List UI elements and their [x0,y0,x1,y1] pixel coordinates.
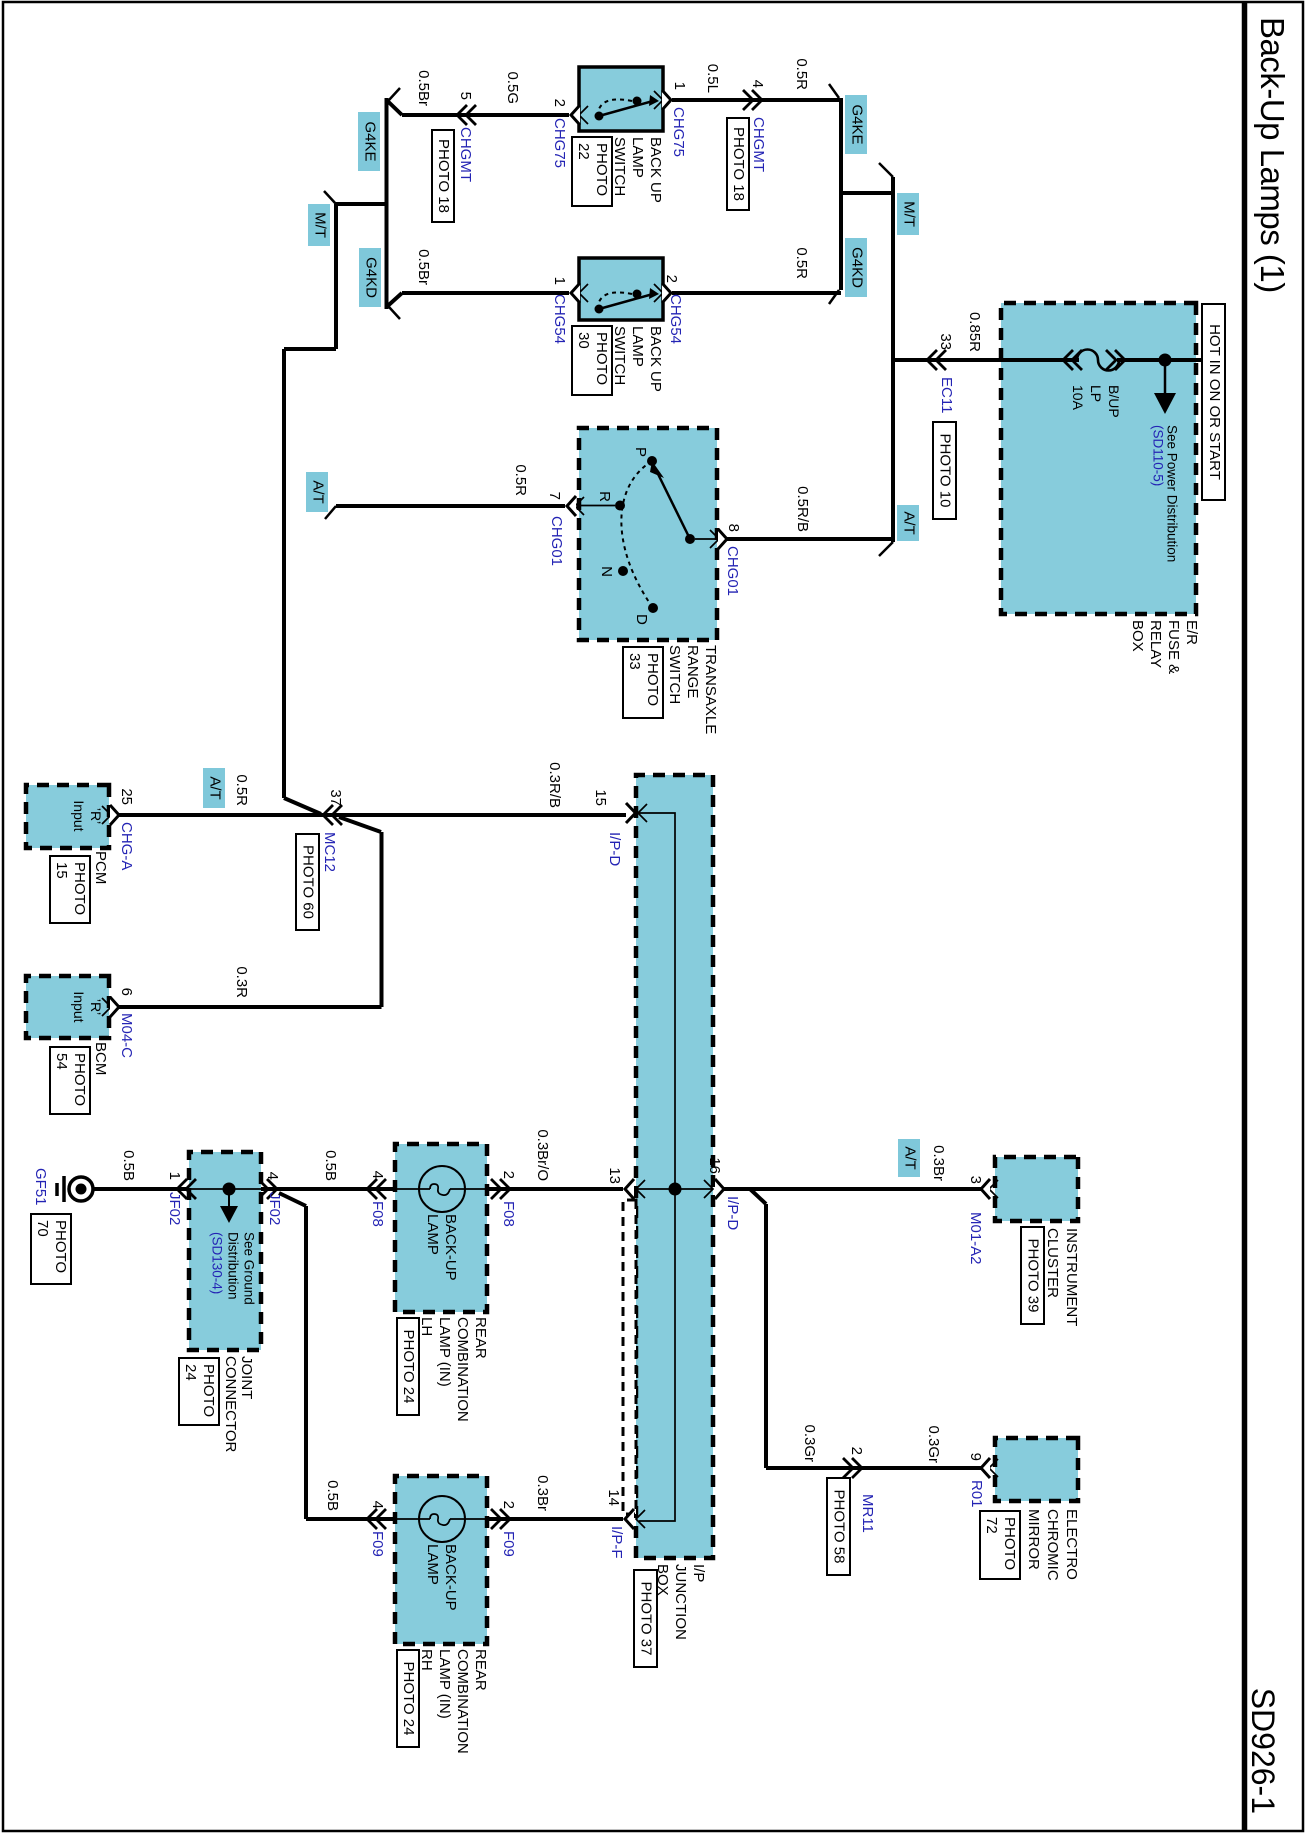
svg-text:N: N [598,566,615,577]
svg-text:LAMP (IN): LAMP (IN) [436,1649,453,1719]
svg-text:LAMP: LAMP [424,1214,441,1255]
svg-text:0.5Br: 0.5Br [415,249,432,285]
svg-text:PHOTO: PHOTO [1001,1517,1018,1570]
svg-text:0.3Br: 0.3Br [930,1145,947,1181]
wire: G4KE/G4KD bus [839,98,843,290]
in-line connector 37 MC12 [323,805,333,825]
svg-text:Back-Up Lamps (1): Back-Up Lamps (1) [1254,17,1291,293]
svg-text:SD926-1: SD926-1 [1245,1688,1281,1814]
photo ref PHOTO 33 [623,647,663,718]
node: junction box splice [669,1183,682,1196]
svg-text:PHOTO: PHOTO [593,332,610,385]
wire: M/T A/T distribution bus [891,177,895,542]
back up lamp switch (CHG75) [579,67,663,131]
svg-text:LAMP: LAMP [629,326,646,367]
pin 15 I/P-D [638,804,647,822]
svg-text:25: 25 [118,788,135,805]
svg-text:PHOTO: PHOTO [593,143,610,196]
svg-text:M/T: M/T [312,212,329,238]
label HOT IN ON OR START [1202,304,1225,500]
svg-text:See Power Distribution: See Power Distribution [1164,425,1179,562]
in-line connector 4 JF02 [267,1179,277,1199]
svg-text:2: 2 [500,1501,517,1509]
wire: 0.5R from CHG01 pin 7 [336,504,565,508]
in-line connector 4 F09 [367,1509,377,1529]
wire: 0.5R / 0.5L to CHG75 pin 1 [672,98,841,102]
svg-text:Input: Input [71,800,87,831]
svg-text:M04-C: M04-C [118,1013,135,1058]
svg-text:MIRROR: MIRROR [1025,1509,1042,1570]
svg-text:RELAY: RELAY [1147,620,1164,668]
svg-text:14: 14 [605,1489,622,1506]
svg-text:0.3Br/O: 0.3Br/O [534,1129,551,1181]
pin 7 CHG01 [575,497,584,515]
svg-text:BCM: BCM [92,1042,109,1075]
svg-text:CHG75: CHG75 [670,107,687,157]
svg-text:REAR: REAR [472,1649,489,1691]
svg-text:CHG75: CHG75 [551,118,568,168]
svg-text:CLUSTER: CLUSTER [1044,1228,1061,1298]
net tag G4KD [359,248,381,307]
wire: 0.3Gr run [764,1204,768,1468]
net tag A/T [898,1139,920,1177]
pin 13 I/P-D [636,1180,645,1198]
svg-text:G4KD: G4KD [363,257,380,298]
photo ref PHOTO 72 [980,1511,1020,1579]
svg-text:CHG01: CHG01 [548,516,565,566]
svg-text:G4KD: G4KD [849,247,866,288]
svg-text:LP: LP [1088,385,1104,402]
net tag M/T [897,193,919,235]
svg-text:37: 37 [327,789,344,806]
svg-text:72: 72 [983,1517,1000,1534]
svg-text:0.5R: 0.5R [793,247,810,279]
wire: corner into bottom bus [387,100,403,115]
svg-text:2: 2 [848,1447,865,1455]
net tag G4KD [845,238,867,297]
svg-text:0.5B: 0.5B [324,1480,341,1511]
photo ref PHOTO 15 [50,856,90,923]
svg-text:0.3Br: 0.3Br [534,1475,551,1511]
wire: jog to bottom M/T bus [336,202,387,206]
BCM R input box [26,976,109,1038]
in-line connector 4 CHGMT [752,90,762,110]
svg-text:0.5B: 0.5B [322,1150,339,1181]
rear combination lamp LH box [395,1144,487,1312]
wire: 0.5R/B to CHG01 pin 8 [727,537,893,541]
photo ref PHOTO 70 [31,1214,71,1284]
svg-text:LAMP: LAMP [629,137,646,178]
svg-text:P: P [632,447,649,457]
joint connector box [189,1152,261,1350]
branch tick [879,163,893,177]
E/R fuse &amp; relay box [1001,303,1196,614]
svg-text:BACK UP: BACK UP [647,137,664,203]
junction box internal wiring [639,813,675,1521]
svg-text:M/T: M/T [901,201,918,227]
photo ref PHOTO 30 [572,326,612,395]
in-line connector 2 F09 [500,1509,510,1529]
svg-text:0.5R: 0.5R [512,464,529,496]
svg-text:PHOTO 39: PHOTO 39 [1025,1239,1042,1313]
arrow to See Ground Distribution [228,1189,230,1206]
net tag A/T [897,505,919,541]
wire: 0.3Br/O to LH lamp [487,1187,623,1191]
svg-text:A/T: A/T [902,1146,919,1169]
svg-text:CONNECTOR: CONNECTOR [222,1356,239,1453]
wire: bus joins MC12 [284,798,321,814]
svg-text:CHG54: CHG54 [551,294,568,344]
svg-text:REAR: REAR [472,1317,489,1359]
svg-text:0.3Gr: 0.3Gr [801,1424,818,1462]
photo ref PHOTO 24 [397,1650,419,1747]
svg-text:CHGMT: CHGMT [750,117,767,172]
svg-text:PHOTO 18: PHOTO 18 [730,127,747,201]
photo ref PHOTO 18 [432,130,454,222]
svg-text:JOINT: JOINT [238,1356,255,1399]
svg-text:RH: RH [418,1649,435,1671]
svg-text:Distribution: Distribution [225,1232,240,1300]
in-line connector 1 JF02 [177,1179,187,1199]
svg-text:4: 4 [749,80,766,88]
pin 25 CHG-A [102,806,111,824]
pin 2 CHG54 [654,284,663,302]
ground GF51 [69,1177,93,1201]
svg-text:PHOTO 24: PHOTO 24 [400,1330,417,1404]
svg-text:F09: F09 [500,1531,517,1557]
svg-text:INSTRUMENT: INSTRUMENT [1063,1228,1080,1326]
svg-text:HOT IN ON OR START: HOT IN ON OR START [1206,324,1223,480]
pin 14 I/P-F [636,1510,645,1528]
svg-text:BACK-UP: BACK-UP [442,1214,459,1281]
svg-text:CHG-A: CHG-A [118,822,135,870]
svg-text:15: 15 [592,789,609,806]
svg-text:15: 15 [53,862,70,879]
in-line connector 2 F08 [500,1179,510,1199]
svg-text:5: 5 [457,92,474,100]
svg-text:0.3Gr: 0.3Gr [925,1425,942,1463]
svg-text:SWITCH: SWITCH [611,137,628,196]
svg-text:10A: 10A [1070,385,1086,411]
wire: 0.5R to CHG54 pin 2 [672,291,841,295]
pin 8 CHG01 [710,530,719,548]
svg-text:F08: F08 [369,1201,386,1227]
svg-text:F08: F08 [500,1201,517,1227]
svg-text:PHOTO 37: PHOTO 37 [638,1582,655,1656]
svg-text:MC12: MC12 [321,832,338,872]
svg-text:EC11: EC11 [938,377,955,413]
pin 2 CHG75 [579,106,588,124]
wire: 0.3R branch [380,832,384,1007]
wire: 0.5Br from CHG54 pin 1 [402,291,569,295]
branch tick [829,84,839,98]
wire: 0.3Gr riser to mirror [766,1466,981,1470]
svg-text:A/T: A/T [310,480,327,503]
wire: battery feed [1117,358,1201,362]
svg-text:RANGE: RANGE [684,645,701,698]
title separator rule [1242,3,1248,1830]
photo ref PHOTO 39 [1021,1227,1044,1324]
wire: 0.3Br to instrument cluster [724,1187,981,1191]
svg-text:CHGMT: CHGMT [457,127,474,182]
svg-text:’R’: ’R’ [88,808,104,824]
wire: 0.3Br to RH lamp [487,1517,623,1521]
instrument cluster box [995,1157,1078,1221]
PCM R input box [26,785,109,848]
svg-text:COMBINATION: COMBINATION [454,1649,471,1754]
transaxle range switch (CHG01) [579,428,717,640]
junction box notch [623,1200,636,1514]
in-line connector 5 CHGMT [457,105,467,125]
photo ref PHOTO 60 [296,834,319,930]
back-up lamp bulb LH [419,1166,465,1212]
svg-text:JF02: JF02 [266,1192,283,1225]
switch contacts P R N D [647,456,657,466]
joint connector internal [189,1188,261,1190]
svg-text:PHOTO: PHOTO [71,862,88,915]
photo ref PHOTO 18 [727,118,749,210]
svg-text:0.5R: 0.5R [233,774,250,806]
svg-text:LH: LH [418,1317,435,1336]
photo ref PHOTO 24 [179,1358,219,1425]
photo ref PHOTO 58 [827,1478,850,1575]
svg-text:COMBINATION: COMBINATION [454,1317,471,1422]
in-line connector 4 F08 [367,1179,377,1199]
svg-text:8: 8 [725,524,742,532]
svg-text:GF51: GF51 [32,1168,49,1206]
svg-text:I/P-D: I/P-D [606,832,623,866]
svg-text:PHOTO: PHOTO [200,1364,217,1417]
svg-text:4: 4 [369,1171,386,1179]
branch tick [829,290,839,304]
svg-text:G4KE: G4KE [849,104,866,144]
svg-text:SWITCH: SWITCH [666,645,683,704]
photo ref PHOTO 10 [933,422,956,519]
wire: 0.5B from LH lamp [261,1187,395,1191]
svg-text:4: 4 [264,1172,281,1180]
wire: 0.5B from RH lamp [306,1517,395,1521]
svg-text:PHOTO 18: PHOTO 18 [435,139,452,213]
net tag G4KE [845,95,867,154]
wire: branch to BCM [339,817,381,832]
photo ref PHOTO 22 [572,137,612,206]
switch contacts CHG75 [633,97,642,106]
wire: joins LH ground wire [279,1193,306,1206]
svg-text:0.3R/B: 0.3R/B [546,762,563,808]
net tag G4KE [358,112,380,171]
svg-text:I/P-D: I/P-D [724,1196,741,1230]
net tag M/T [308,204,330,246]
branch tick [324,191,336,204]
svg-text:1: 1 [166,1172,183,1180]
svg-text:CHROMIC: CHROMIC [1044,1509,1061,1581]
svg-text:See Ground: See Ground [241,1232,256,1305]
svg-text:JUNCTION: JUNCTION [672,1564,689,1640]
svg-text:PCM: PCM [92,851,109,884]
pin 6 M04-C [102,998,111,1016]
svg-text:33: 33 [626,653,643,670]
arrow to See Power Distribution [1164,360,1167,393]
svg-text:TRANSAXLE: TRANSAXLE [702,645,719,734]
wire: 0.3R/B PCM riser [119,813,627,817]
svg-text:MR11: MR11 [859,1494,876,1533]
svg-text:LAMP (IN): LAMP (IN) [436,1317,453,1387]
svg-text:(SD110-5): (SD110-5) [1150,425,1165,486]
node: feed junction [1159,354,1172,367]
svg-text:4: 4 [369,1501,386,1509]
svg-text:Input: Input [71,991,87,1022]
svg-text:BACK-UP: BACK-UP [442,1544,459,1611]
svg-text:(SD130-4): (SD130-4) [209,1232,224,1294]
wire: 0.3R to BCM pin 6 [119,1005,382,1009]
svg-text:30: 30 [575,332,592,349]
wire: corner into bottom bus [387,293,403,307]
svg-text:0.5R: 0.5R [793,58,810,90]
branch tick [389,307,400,319]
svg-text:6: 6 [118,988,135,996]
back-up lamp bulb RH [419,1496,465,1542]
svg-text:JF02: JF02 [166,1192,183,1225]
wire: 0.5B to ground [93,1187,189,1191]
svg-text:13: 13 [606,1167,623,1184]
svg-text:PHOTO: PHOTO [71,1053,88,1106]
svg-text:CHG01: CHG01 [724,546,741,596]
svg-text:70: 70 [34,1220,51,1237]
svg-text:16: 16 [706,1157,723,1174]
svg-text:PHOTO 24: PHOTO 24 [400,1662,417,1736]
svg-text:D: D [633,614,650,625]
svg-text:I/P-F: I/P-F [608,1526,625,1559]
svg-text:R01: R01 [968,1480,985,1508]
wire: 0.5G / 0.5Br from CHG75 pin 2 [402,113,569,117]
svg-text:B/UP: B/UP [1106,385,1122,418]
wire: bottom M/T bus [334,204,338,349]
svg-text:PHOTO 60: PHOTO 60 [300,845,317,919]
pin 1 CHG75 [654,91,663,109]
svg-text:PHOTO 10: PHOTO 10 [937,434,954,508]
pin 9 R01 [989,1459,998,1477]
net tag A/T [306,472,328,512]
svg-text:0.85R: 0.85R [966,312,983,352]
svg-text:PHOTO: PHOTO [52,1220,69,1273]
svg-text:0.5Br: 0.5Br [415,70,432,106]
node: joint connector splice [223,1183,236,1196]
svg-text:0.3R: 0.3R [233,966,250,998]
photo ref PHOTO 37 [634,1570,657,1667]
svg-text:LAMP: LAMP [424,1544,441,1585]
svg-text:2: 2 [551,99,568,107]
svg-text:SWITCH: SWITCH [611,326,628,385]
svg-text:A/T: A/T [207,776,224,799]
electro chromic mirror box [995,1438,1078,1501]
svg-text:’R’: ’R’ [88,999,104,1015]
svg-text:0.5R/B: 0.5R/B [794,486,811,532]
svg-text:FUSE &: FUSE & [1165,620,1182,674]
pin 1 CHG54 [579,284,588,302]
svg-text:3: 3 [967,1176,984,1184]
svg-text:22: 22 [575,143,592,160]
branch tick [389,88,400,100]
photo ref PHOTO 54 [50,1047,90,1114]
I/P junction box [636,775,713,1558]
svg-text:BOX: BOX [1129,620,1146,652]
svg-text:PHOTO: PHOTO [644,653,661,706]
net tag A/T [203,768,225,808]
branch tick [325,506,336,519]
svg-text:0.5L: 0.5L [704,64,721,93]
wire: R signal bus to MC12 [282,349,286,798]
wire: bus jog [284,347,336,351]
svg-text:R: R [596,491,613,502]
in-line connector 2 MR11 [852,1458,862,1478]
pin 16 I/P-D [704,1180,713,1198]
svg-text:54: 54 [53,1053,70,1070]
wire: battery feed 0.85R [893,358,1079,362]
svg-text:G4KE: G4KE [362,121,379,161]
svg-text:A/T: A/T [901,511,918,534]
back up lamp switch (CHG54) [579,258,663,320]
svg-text:1: 1 [671,82,688,90]
svg-text:ELECTRO: ELECTRO [1063,1509,1080,1580]
svg-text:E/R: E/R [1183,620,1200,645]
svg-text:0.5B: 0.5B [120,1150,137,1181]
svg-text:PHOTO 58: PHOTO 58 [831,1490,848,1564]
pin 3 M01-A2 [989,1180,998,1198]
svg-text:BACK UP: BACK UP [647,326,664,392]
in-line connector EC11 [927,350,937,370]
wire: RH lamp ground run [304,1206,308,1519]
svg-text:24: 24 [182,1364,199,1381]
svg-text:F09: F09 [369,1531,386,1557]
svg-text:9: 9 [967,1453,984,1461]
wire: bottom G4KE/G4KD bus [385,98,389,309]
svg-text:0.5G: 0.5G [504,71,521,104]
switch contacts CHG54 [633,290,642,299]
branch tick [879,542,893,556]
svg-text:2: 2 [663,275,680,283]
svg-text:1: 1 [551,277,568,285]
fuse B/UP LP 10A [1115,350,1125,370]
svg-text:I/P: I/P [690,1564,707,1582]
svg-text:7: 7 [546,492,563,500]
rear combination lamp RH box [395,1476,487,1644]
svg-text:33: 33 [937,333,954,350]
photo ref PHOTO 24 [397,1318,419,1415]
wire: jog to G4KE/G4KD bus [841,191,893,195]
svg-text:CHG54: CHG54 [667,294,684,344]
svg-text:M01-A2: M01-A2 [967,1212,984,1265]
wire: branch to mirror [750,1189,766,1204]
svg-text:2: 2 [500,1171,517,1179]
